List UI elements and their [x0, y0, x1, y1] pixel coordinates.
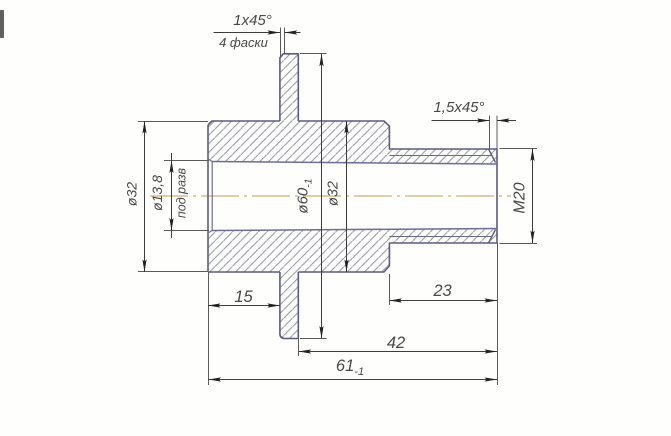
extension lines ф13.8	[164, 161, 209, 231]
dimension ф32 middle	[346, 121, 348, 272]
dimension 23	[389, 300, 497, 302]
lower extension lines	[209, 243, 498, 385]
section hatch lower half	[208, 229, 497, 339]
svg-text:ø32: ø32	[326, 181, 342, 206]
bore entrance chamfer	[208, 159, 212, 233]
svg-text:4 фаски: 4 фаски	[219, 35, 268, 50]
svg-text:1х45°: 1х45°	[233, 12, 272, 29]
dimension M20	[532, 149, 534, 244]
extension lines ф60	[300, 54, 327, 339]
dimension 1x45	[214, 32, 281, 34]
extension lines M20	[500, 149, 538, 244]
left face	[207, 125, 209, 272]
svg-text:под разв: под разв	[175, 167, 189, 218]
dimension 42	[299, 351, 497, 353]
svg-text:23: 23	[432, 282, 452, 300]
svg-text:61-1: 61-1	[336, 357, 364, 378]
bore bottom edge	[212, 229, 497, 231]
svg-text:1,5х45°: 1,5х45°	[433, 99, 484, 116]
scan artifact top-left edge	[0, 10, 4, 38]
dimension ф32 left	[144, 121, 146, 272]
extension lines ф32 left	[138, 122, 208, 272]
chamfer 1x45 extension lines	[281, 28, 285, 58]
svg-text:ø32: ø32	[124, 182, 140, 206]
bore top edge	[212, 162, 497, 165]
section hatch upper half	[208, 54, 497, 164]
centerline axis	[150, 195, 511, 197]
part outline lower	[208, 243, 497, 339]
thread minor diameter thin lines	[389, 156, 492, 237]
right face of thread end	[496, 149, 498, 243]
svg-text:М20: М20	[512, 182, 529, 213]
part outline upper	[208, 54, 497, 149]
svg-text:42: 42	[387, 334, 405, 352]
dimension 1.5x45	[432, 120, 490, 122]
svg-text:ø13,8: ø13,8	[149, 175, 165, 211]
thread end chamfer edges 1.5x45	[489, 149, 496, 243]
svg-text:15: 15	[234, 288, 253, 306]
dimension 15	[208, 305, 280, 307]
chamfer 1.5x45 extension lines	[490, 116, 498, 150]
dimension ф13.8	[171, 153, 173, 238]
dimension ф60	[321, 54, 323, 339]
dimension 61	[209, 379, 498, 381]
